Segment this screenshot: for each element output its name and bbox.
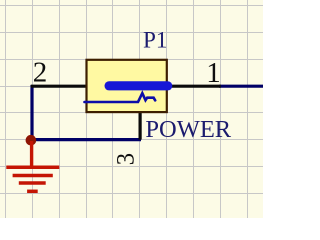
wire (horizontal net segment from junction to pin 3) [31, 138, 141, 141]
connector P1 center pin bar [105, 81, 173, 90]
svg-text:POWER: POWER [145, 116, 231, 143]
ground bar 4 [27, 190, 38, 194]
pin 1 lead (black) [167, 85, 221, 88]
svg-text:2: 2 [33, 57, 48, 89]
junction dot [26, 135, 37, 146]
ground bar 1 [6, 166, 59, 170]
svg-text:P1: P1 [143, 28, 168, 54]
ground stem [30, 141, 33, 167]
svg-text:3: 3 [113, 153, 140, 165]
wire (vertical net segment from pin 2 corner down to junction) [30, 85, 33, 140]
svg-text:1: 1 [206, 57, 221, 89]
connector P1 body [87, 60, 167, 112]
pin 2 lead (black) [31, 85, 87, 88]
connector P1 sleeve contact with switch bump [85, 93, 156, 102]
wire (net segment from pin 1 to right edge) [219, 85, 263, 88]
pin 3 lead (black) [139, 112, 142, 140]
sheet background [0, 0, 263, 218]
ground bar 2 [13, 174, 53, 178]
ground bar 3 [19, 181, 46, 185]
